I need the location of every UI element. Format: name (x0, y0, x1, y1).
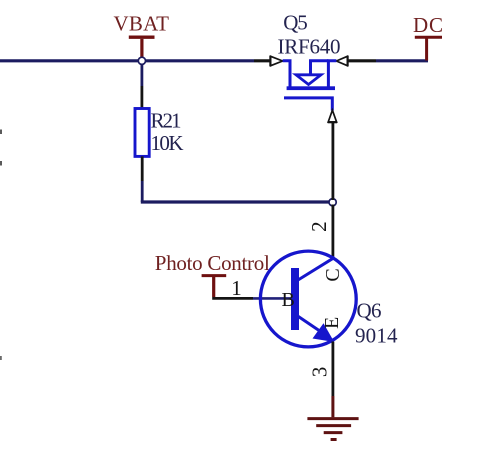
junction at gate node (329, 199, 336, 206)
Q5 gate arrow (open, pointing up) (328, 110, 336, 122)
Q6 body circle (260, 251, 356, 347)
Q5 bulk connection (311, 61, 329, 76)
edge mark 3 (0, 356, 2, 360)
ground (307, 419, 358, 440)
Q5 bulk arrow triangle (296, 75, 321, 85)
Q5 source lead (328, 61, 336, 88)
junction at VBAT node (138, 57, 145, 64)
wire Q5 drain pin stub (254, 59, 271, 62)
transistor Q6 9014 NPN (260, 251, 398, 347)
wire gate down to node (331, 122, 334, 200)
resistor R21 (135, 109, 149, 157)
wire Q6 emitter down (331, 342, 334, 397)
port Photo Control (155, 251, 270, 297)
wire node down to Q6 collector (331, 205, 334, 258)
wire ground lead (331, 396, 334, 417)
svg-text:Q6: Q6 (357, 299, 382, 323)
wire to Q6 base (253, 297, 291, 300)
transistor Q5 IRF640 P-MOSFET (270, 11, 347, 123)
wire R21 to corner (141, 181, 144, 202)
Q5 source arrow (open, pointing left) (336, 56, 347, 65)
Q6 emitter arrow (filled) (313, 323, 335, 342)
Q5 drain lead (283, 61, 290, 88)
wire top rail left segment (0, 59, 254, 62)
Q6 collector line (298, 257, 335, 280)
svg-text:DC: DC (413, 13, 443, 37)
svg-text:VBAT: VBAT (114, 12, 170, 36)
svg-text:B: B (282, 289, 295, 311)
svg-text:1: 1 (231, 276, 242, 300)
svg-text:Q5: Q5 (283, 11, 308, 35)
svg-text:3: 3 (307, 367, 331, 378)
svg-text:E: E (321, 317, 343, 329)
port DC (413, 13, 443, 61)
Q6 base bar (291, 268, 299, 330)
Q5 channel bar (287, 86, 335, 90)
edge mark 1 (0, 130, 2, 135)
wire Photo Control base pin (212, 297, 253, 300)
edge mark 2 (0, 161, 2, 166)
wire R21 top pin (140, 86, 143, 109)
power symbol VBAT (114, 12, 170, 59)
svg-text:R21: R21 (151, 109, 182, 133)
wire top rail right segment (376, 59, 428, 62)
Q6 emitter line (298, 316, 322, 332)
svg-text:10K: 10K (151, 131, 184, 155)
Q5 gate bar (284, 98, 332, 111)
svg-text:IRF640: IRF640 (278, 35, 341, 59)
svg-text:2: 2 (307, 221, 331, 232)
wire horizontal to gate node (141, 200, 334, 203)
Q5 drain arrow (open, pointing right) (271, 56, 283, 65)
svg-text:C: C (322, 268, 344, 281)
wire VBAT node down to R21 (140, 65, 143, 87)
wire R21 bottom pin (141, 156, 144, 181)
svg-text:Photo Control: Photo Control (155, 251, 270, 275)
svg-text:9014: 9014 (355, 324, 398, 348)
wire Q5 source pin stub (347, 59, 376, 62)
